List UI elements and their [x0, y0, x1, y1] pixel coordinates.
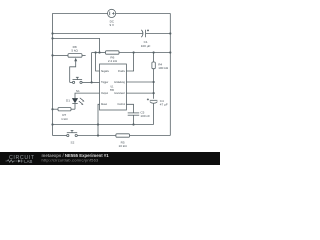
LED D1: [66, 98, 84, 109]
svg-text:S1: S1: [76, 89, 80, 93]
svg-text:Reset: Reset: [101, 103, 107, 106]
svg-text:100 kΩ: 100 kΩ: [158, 66, 169, 70]
svg-text:Positiv: Positiv: [118, 70, 126, 73]
resistor R7 1k: [53, 108, 76, 121]
switch S2 push button: [67, 130, 78, 144]
capacitor C5 100nF: [128, 111, 150, 125]
wire VCC leg to chip pin Positiv: [126, 53, 133, 72]
wire R6 rail right portion: [119, 52, 170, 54]
svg-text:47 µF: 47 µF: [160, 103, 168, 107]
wire trigger line to chip: [92, 81, 100, 83]
junction inner rail at left vertical: [51, 123, 53, 125]
capacitor C1 100uF polarized: [141, 29, 151, 47]
wire bottom rail left segment: [53, 135, 67, 137]
junction C1 rail at right vertical: [169, 32, 171, 34]
wire top rail battery to right vertical: [116, 12, 171, 14]
svg-text:Control: Control: [117, 103, 125, 106]
svg-text:Grenzwert: Grenzwert: [114, 92, 125, 95]
wire line A right part: [146, 33, 171, 35]
wire trigger pull leg: [91, 53, 93, 83]
svg-text:2.2 kΩ: 2.2 kΩ: [108, 59, 118, 63]
wire inner ground rail: [53, 124, 154, 126]
resistor R5 10k: [116, 134, 130, 148]
footer bar: [0, 152, 220, 165]
junction trigger line: [91, 81, 93, 83]
junction R6 rail VCC leg: [133, 51, 135, 53]
junction discharge line at R4 leg: [153, 81, 155, 83]
svg-text:Output: Output: [101, 92, 108, 95]
wire R6 rail left portion: [92, 52, 106, 54]
wire GND leg to chip pin Negativ: [96, 53, 100, 72]
wire left vertical (battery minus rail): [52, 13, 54, 135]
junction R6 rail R4 top: [153, 51, 155, 53]
resistor R6 2.2k: [106, 51, 120, 63]
resistor R4 100k: [152, 53, 169, 99]
wire top rail from left vertical to battery: [53, 12, 108, 14]
555 timer U1: [100, 64, 127, 110]
junction inner rail at C5 leg: [132, 123, 134, 125]
wire bottom rail middle segment: [77, 135, 116, 137]
wire right vertical (battery plus rail): [169, 13, 171, 135]
potentiometer R8 5k: [53, 45, 86, 83]
svg-text:10 kΩ: 10 kΩ: [119, 144, 128, 148]
wire bottom rail right segment: [130, 135, 171, 137]
svg-text:D1: D1: [66, 98, 70, 102]
junction at R7 left terminal: [51, 108, 53, 110]
wire line A (C1 rail) left part: [53, 33, 143, 35]
junction at R8 left terminal: [51, 54, 53, 56]
svg-text:1 kΩ: 1 kΩ: [61, 117, 68, 121]
wire threshold line: [126, 92, 153, 94]
voltage source V1 DC 9V: [108, 9, 116, 27]
switch S1 push button: [70, 77, 92, 93]
capacitor C4 47uF polarized: [147, 98, 168, 124]
wire reset leg: [98, 104, 100, 135]
wire discharge line: [126, 81, 153, 83]
svg-text:Trigger: Trigger: [101, 81, 109, 84]
svg-text:LAB: LAB: [24, 159, 32, 164]
svg-text:100 nF: 100 nF: [140, 114, 150, 118]
svg-text:5 kΩ: 5 kΩ: [71, 49, 78, 53]
junction on line B at left vertical: [51, 37, 53, 39]
svg-text:S2: S2: [71, 140, 75, 144]
junction threshold line at R4 leg: [153, 92, 155, 94]
svg-text:Entladung: Entladung: [114, 81, 125, 84]
svg-text:http://circuitlab.com/c/pnf563: http://circuitlab.com/c/pnf563: [42, 157, 99, 162]
svg-text:Negativ: Negativ: [101, 70, 110, 73]
junction R6 rail line B leg: [98, 51, 100, 53]
junction inner rail at reset leg: [97, 123, 99, 125]
junction R6 rail at right vertical: [169, 51, 171, 53]
junction R6 rail GND leg: [95, 51, 97, 53]
junction bottom rail at reset leg: [97, 134, 99, 136]
svg-text:100 µF: 100 µF: [141, 44, 151, 48]
wire output line: [75, 93, 100, 98]
wire control pin to C5: [126, 104, 133, 113]
wire line B from left vertical to down-leg: [53, 38, 100, 52]
junction on C1 rail at left vertical: [51, 32, 53, 34]
